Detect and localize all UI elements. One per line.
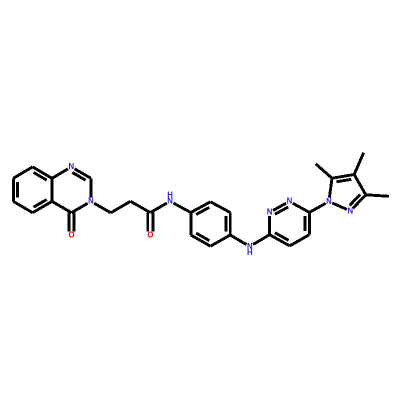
svg-text:H: H bbox=[167, 190, 173, 199]
svg-text:N: N bbox=[68, 162, 74, 171]
svg-text:N: N bbox=[326, 197, 332, 206]
svg-text:N: N bbox=[347, 206, 353, 215]
svg-text:O: O bbox=[69, 230, 75, 239]
svg-text:N: N bbox=[287, 197, 293, 206]
svg-text:O: O bbox=[147, 230, 153, 239]
svg-text:N: N bbox=[267, 208, 273, 217]
svg-text:H: H bbox=[247, 248, 253, 257]
svg-text:N: N bbox=[88, 197, 94, 206]
